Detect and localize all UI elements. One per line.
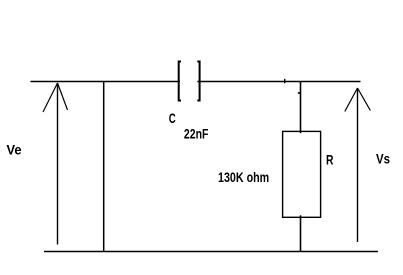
svg-text:Vs: Vs <box>376 150 390 166</box>
svg-text:Ve: Ve <box>7 142 22 158</box>
wire resistor top lead <box>300 82 302 134</box>
wire top rail left segment <box>31 81 181 83</box>
wire bottom rail <box>44 251 378 253</box>
svg-text:R: R <box>326 151 334 167</box>
svg-text:22nF: 22nF <box>184 126 209 142</box>
wire resistor bottom lead <box>300 215 302 251</box>
node tick on top rail <box>284 79 286 84</box>
resistor R body <box>283 131 321 217</box>
capacitor C right plate <box>197 62 199 101</box>
arrow Ve input voltage <box>43 83 68 245</box>
wire left vertical branch <box>103 82 105 252</box>
svg-text:130K ohm: 130K ohm <box>218 169 269 185</box>
node nub on resistor top lead <box>298 92 301 94</box>
wire top rail right segment <box>197 81 360 83</box>
arrow Vs output voltage <box>345 88 371 242</box>
capacitor C left plate <box>179 62 181 101</box>
svg-text:C: C <box>169 110 176 126</box>
